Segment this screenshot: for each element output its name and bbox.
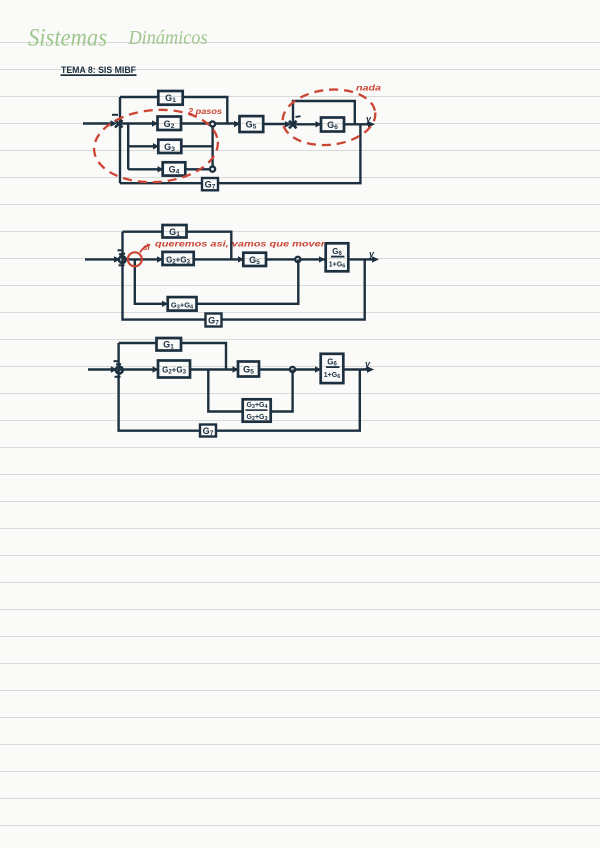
svg-text:nada: nada <box>356 83 381 93</box>
svg-text:G4: G4 <box>169 165 180 176</box>
svg-text:2 pasos: 2 pasos <box>187 106 222 116</box>
svg-text:queremos asi, vamos que mover: queremos asi, vamos que mover <box>155 240 326 249</box>
svg-text:Sistemas: Sistemas <box>28 25 107 52</box>
svg-text:G3+G4: G3+G4 <box>171 301 194 311</box>
svg-text:1+G6: 1+G6 <box>324 372 341 380</box>
svg-text:G5: G5 <box>249 255 260 266</box>
svg-text:G3: G3 <box>164 142 175 153</box>
svg-text:Dinámicos: Dinámicos <box>128 27 208 49</box>
svg-text:G6: G6 <box>327 358 337 368</box>
svg-text:G2: G2 <box>164 119 175 130</box>
svg-text:G1: G1 <box>169 227 180 238</box>
svg-text:1+G6: 1+G6 <box>329 262 346 270</box>
svg-text:G2+G3: G2+G3 <box>246 414 267 422</box>
svg-text:G1: G1 <box>163 340 174 351</box>
svg-text:G6: G6 <box>332 247 342 257</box>
svg-text:G5: G5 <box>246 120 257 131</box>
svg-text:y: y <box>365 114 372 124</box>
svg-text:si: si <box>143 243 150 252</box>
svg-text:G6: G6 <box>327 120 338 131</box>
svg-text:y: y <box>368 249 375 259</box>
svg-text:G2+G3: G2+G3 <box>166 256 190 266</box>
svg-text:G3+G4: G3+G4 <box>246 402 268 410</box>
svg-text:G1: G1 <box>165 93 176 104</box>
svg-text:y: y <box>364 359 371 369</box>
